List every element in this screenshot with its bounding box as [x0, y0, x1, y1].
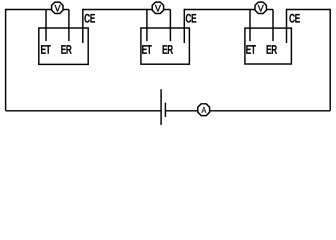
wire: V2 right side to ER2 corner — [163, 9, 170, 11]
wire: top rail CE3 to right edge — [287, 9, 331, 11]
wire: top rail CE1 to voltmeter V2, ET2 tap at x=146.9 — [83, 9, 153, 11]
label ER cell 3 — [267, 45, 277, 53]
wire: CE3 electrode lead into cell 3 — [286, 9, 288, 43]
voltmeter U1 circle — [52, 2, 63, 13]
wire: ER1 electrode lead into cell 1 — [68, 10, 70, 42]
label ER cell 1 — [62, 45, 72, 53]
voltmeter U2 circle — [152, 2, 163, 13]
voltmeter U3 circle — [255, 2, 266, 13]
cell box 2 — [141, 28, 190, 64]
wire: left outer conductor — [5, 9, 7, 111]
label CE cell 1 — [85, 14, 95, 22]
wire: CE2 electrode lead into cell 2 — [183, 9, 185, 43]
label ET cell 3 — [247, 45, 256, 53]
wire: bottom rail from left edge to battery positive plate — [6, 110, 162, 112]
cell box 1 — [39, 28, 88, 64]
wire: battery to ammeter — [165, 110, 198, 112]
label CE cell 3 — [290, 14, 300, 22]
label CE cell 2 — [186, 14, 196, 22]
label ER cell 2 — [163, 45, 173, 53]
wire: top rail CE2 to voltmeter V3, ET3 tap at x=250 — [184, 9, 255, 11]
wire: right outer conductor — [329, 9, 331, 111]
wire: V3 right side to ER3 corner — [266, 9, 273, 11]
battery B1 short plate — [164, 103, 166, 117]
label A of ammeter A1 — [202, 107, 207, 113]
cell box 3 — [245, 28, 292, 64]
ammeter A1 circle — [198, 104, 210, 116]
wire: ET2 electrode lead into cell 2 — [146, 10, 148, 42]
label ET cell 2 — [142, 45, 151, 53]
wire: ER2 electrode lead into cell 2 — [169, 10, 171, 42]
wire: top rail from left edge to voltmeter V1, ET1 tap at x=46 — [6, 9, 52, 11]
label V of voltmeter U1 — [55, 5, 61, 12]
label V of voltmeter U3 — [258, 5, 264, 12]
wire: CE1 electrode lead into cell 1 — [82, 9, 84, 43]
label ET cell 1 — [41, 45, 50, 53]
label V of voltmeter U2 — [155, 5, 161, 12]
wire: ER3 electrode lead into cell 3 — [272, 10, 274, 42]
wire: ammeter to right edge — [209, 110, 330, 112]
wire: V1 right side to ER1 corner — [63, 9, 69, 11]
battery B1 long plate — [160, 89, 162, 125]
wire: ET3 electrode lead into cell 3 — [249, 10, 251, 42]
wire: ET1 electrode lead into cell 1 — [45, 10, 47, 42]
